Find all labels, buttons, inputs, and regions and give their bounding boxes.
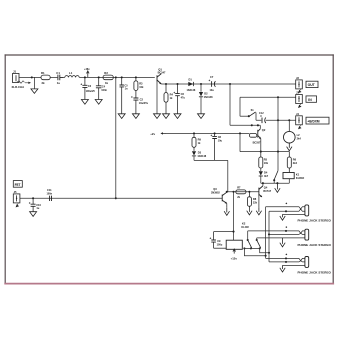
node K2 drive tap — [232, 191, 234, 193]
svg-text:J4: J4 — [296, 112, 299, 116]
wire node to ground stem — [33, 77, 35, 88]
ground (C5) — [118, 114, 125, 119]
node x278 on y120 — [277, 119, 279, 121]
svg-text:+B/DXM: +B/DXM — [307, 119, 319, 123]
wire contact common — [244, 247, 259, 249]
svg-text:R8: R8 — [253, 197, 257, 201]
svg-text:KLCM: KLCM — [241, 226, 248, 229]
svg-text:1k: 1k — [105, 81, 109, 85]
wire jack2 top — [248, 231, 305, 233]
svg-text:10k: 10k — [139, 86, 144, 89]
zigzag shield element — [17, 81, 25, 84]
ground arrow (jack3) — [280, 265, 285, 272]
svg-text:+48v: +48v — [84, 68, 90, 71]
wire L1 to Q1 base — [79, 76, 155, 78]
ground (Q1 emitter) — [154, 114, 161, 119]
svg-text:+2v: +2v — [150, 132, 155, 136]
diode D2 to ground — [199, 84, 203, 114]
node contacts on y125.3 — [251, 124, 253, 126]
ground (C3) — [81, 100, 88, 105]
svg-text:PHONE JACK STEREO: PHONE JACK STEREO — [298, 243, 332, 247]
wire down to relay rail — [239, 133, 241, 151]
capacitor C3 electrolytic — [81, 77, 88, 99]
wire R1 to C1 — [50, 76, 57, 78]
svg-text:C6: C6 — [181, 92, 185, 96]
svg-text:2k: 2k — [42, 81, 46, 85]
ground (C10) — [30, 212, 37, 217]
svg-text:1N4148: 1N4148 — [204, 96, 213, 99]
wire feedback vertical to Q3 collector — [227, 160, 229, 191]
node C10 tap — [32, 197, 34, 199]
node tick jack3 — [286, 254, 288, 256]
wire vertical x230 — [229, 84, 231, 125]
capacitor C9 electrolytic — [210, 232, 227, 249]
node Q3 collector — [226, 191, 228, 193]
node tick jack2 — [286, 226, 288, 228]
arrow into node — [25, 82, 29, 84]
svg-text:Q2: Q2 — [262, 128, 266, 132]
connector J4 — [296, 116, 303, 125]
svg-text:D2: D2 — [204, 92, 208, 96]
svg-text:K2: K2 — [242, 221, 246, 225]
switch lever x278 relay contact — [277, 97, 279, 170]
svg-text:10u/25v: 10u/25v — [139, 102, 149, 105]
ground arrow (R8) — [247, 211, 252, 215]
border frame bottom — [5, 283, 333, 285]
ground arrow (Q4 emitter) — [256, 207, 261, 215]
phone jack 3 — [305, 257, 309, 268]
svg-text:R9: R9 — [198, 137, 202, 141]
boxed label OUT — [306, 81, 318, 87]
wire bias rail — [166, 132, 249, 134]
relay coil K2 — [226, 240, 242, 249]
wire y183.2 — [261, 182, 290, 184]
svg-text:C3: C3 — [88, 84, 92, 88]
ground arrow (Q3 emitter) — [224, 208, 229, 216]
svg-text:BC557: BC557 — [253, 142, 261, 145]
pin arrow J3 — [299, 104, 301, 107]
switch S1 lever — [249, 112, 255, 116]
ground (D2) — [198, 114, 205, 119]
relay contact pole B — [256, 239, 258, 241]
svg-text:XLR-CHA: XLR-CHA — [12, 85, 25, 89]
svg-text:R6: R6 — [293, 158, 297, 162]
phone jack 2 — [305, 229, 309, 240]
wire jack3 mid — [269, 261, 305, 262]
switch S1 contact — [248, 115, 250, 117]
svg-text:R4: R4 — [170, 93, 174, 97]
diode D3 — [192, 151, 196, 160]
transistor Q3 — [222, 192, 227, 208]
diode D1 — [188, 82, 193, 86]
lamp L2 circle — [284, 120, 296, 143]
wire relay rail y151.6 — [240, 151, 289, 153]
node x278 on rail — [277, 151, 279, 153]
svg-text:L1: L1 — [69, 71, 73, 75]
svg-text:1u: 1u — [36, 207, 39, 210]
transistor Q1 — [157, 74, 162, 114]
wire Q1 output rail — [161, 83, 295, 85]
capacitor C5 small — [120, 77, 124, 113]
resistor R7 — [236, 190, 246, 194]
ground arrow (L2) — [287, 143, 292, 151]
svg-text:IN: IN — [308, 98, 312, 102]
wire C1 to L1 — [60, 76, 63, 78]
wire J1 to R1 — [19, 76, 41, 78]
wire K1 bottom — [288, 179, 290, 184]
wire vertical x240 from J3 rail — [239, 97, 241, 116]
node C4 tap — [98, 76, 100, 78]
svg-text:D4: D4 — [264, 171, 268, 175]
resistor R10 base of Q2 — [249, 134, 256, 138]
wire jack3 top — [266, 258, 306, 260]
ground (C6) — [174, 114, 181, 119]
relay contact pole A — [247, 239, 249, 241]
wire riser pole A to jack2 top — [247, 231, 249, 240]
boxed label +B/DXM — [306, 117, 329, 124]
svg-text:22k: 22k — [253, 201, 258, 204]
wire bus V1 — [265, 207, 267, 259]
capacitor C12 electrolytic horizontal — [260, 115, 266, 123]
border frame right — [332, 55, 334, 284]
wire switched rail y=120.3 — [256, 119, 296, 121]
capacitor C7 electrolytic coupling — [209, 80, 216, 87]
node R4 tap — [165, 83, 167, 85]
svg-text:2k: 2k — [237, 196, 240, 199]
svg-text:10k: 10k — [264, 162, 269, 165]
node C3 tap — [84, 76, 86, 78]
boxed label IN — [306, 96, 317, 102]
wire lower input bus y198.3 — [20, 197, 222, 199]
pin arrow J4 — [299, 125, 301, 128]
wire y116.2 — [240, 115, 249, 117]
svg-text:10u: 10u — [210, 89, 215, 92]
capacitor C11 series — [50, 196, 52, 201]
svg-text:1k: 1k — [170, 97, 173, 100]
svg-text:C9: C9 — [217, 239, 221, 243]
svg-text:R1: R1 — [41, 71, 45, 75]
connector J2 — [296, 80, 303, 89]
wire jack2 mid — [269, 233, 305, 234]
node R3 tap — [135, 76, 137, 78]
svg-text:R3: R3 — [139, 81, 143, 85]
switch S1 output stub — [255, 113, 257, 121]
relay coil K1 — [283, 173, 294, 179]
capacitor C4 — [96, 77, 102, 99]
svg-text:OUT: OUT — [308, 83, 316, 87]
capacitor C1 — [58, 75, 60, 81]
wire feedback rail y=97.3 — [240, 96, 296, 98]
svg-text:100u: 100u — [217, 243, 223, 246]
inductor L1 — [60, 76, 79, 78]
ground (R3/C2) — [132, 114, 139, 119]
svg-text:2N3902: 2N3902 — [211, 191, 220, 194]
svg-text:D3: D3 — [198, 151, 202, 155]
border frame top — [5, 54, 333, 56]
svg-text:J2: J2 — [296, 76, 299, 80]
svg-text:J5: J5 — [14, 190, 17, 194]
ground (R4) — [163, 114, 170, 119]
connector J3 — [296, 95, 303, 104]
resistor R6 vertical — [287, 152, 291, 173]
svg-text:C7: C7 — [210, 75, 214, 79]
svg-text:L2: L2 — [297, 133, 301, 137]
wire jack1 top — [266, 207, 306, 209]
resistor R8 vertical — [247, 192, 251, 212]
node D2 tap — [200, 83, 202, 85]
connector J5 — [13, 194, 20, 203]
svg-text:R7: R7 — [237, 186, 241, 190]
capacitor C2 electrolytic — [131, 96, 138, 114]
wire common to bottom rail — [244, 248, 265, 255]
svg-text:K1: K1 — [296, 172, 300, 176]
svg-text:1N4148: 1N4148 — [197, 155, 206, 158]
node C6 tap — [176, 83, 178, 85]
node x289 on y120 — [288, 119, 290, 121]
resistor R1 — [41, 75, 50, 80]
svg-text:1k: 1k — [198, 142, 201, 145]
wire jack3 bottom — [283, 264, 306, 266]
ground arrow (y183 rail) — [275, 183, 280, 192]
svg-text:+12v: +12v — [231, 257, 238, 261]
capacitor C8 electrolytic — [211, 133, 217, 160]
svg-text:4k7: 4k7 — [264, 175, 269, 178]
svg-text:FET: FET — [15, 183, 21, 187]
svg-text:KLR1D: KLR1D — [296, 177, 305, 180]
svg-text:100u/25: 100u/25 — [86, 90, 96, 93]
ground (C4) — [95, 100, 102, 105]
resistor R3 vertical — [134, 77, 138, 97]
svg-text:2k4: 2k4 — [297, 138, 302, 141]
node C5 tap — [121, 76, 123, 78]
resistor R5 vertical — [259, 152, 263, 168]
transistor Q4 — [259, 183, 263, 207]
svg-text:C12: C12 — [259, 112, 264, 115]
node bias to relay rail — [239, 132, 241, 134]
svg-text:BC547: BC547 — [158, 71, 166, 74]
wire K2 loop top — [214, 231, 234, 233]
node on input wire — [31, 76, 33, 78]
svg-text:2k2: 2k2 — [293, 162, 298, 165]
svg-text:100n: 100n — [101, 89, 107, 92]
wire riser pole B to jack2 bottom — [256, 238, 258, 240]
svg-text:C1: C1 — [56, 71, 60, 75]
svg-text:PHONE JACK STEREO: PHONE JACK STEREO — [298, 270, 332, 274]
node on y183.2 — [262, 182, 264, 184]
wire jack2 bottom — [257, 237, 305, 239]
svg-text:1u: 1u — [57, 81, 61, 85]
svg-text:1N4148: 1N4148 — [187, 89, 196, 92]
wire collector rail y191.8 — [227, 191, 259, 193]
phone jack 1 — [305, 205, 309, 216]
svg-text:47u: 47u — [181, 97, 186, 100]
svg-text:R5: R5 — [264, 158, 268, 162]
boxed label FET — [13, 181, 22, 188]
svg-text:C8: C8 — [218, 135, 222, 139]
wire y160.4 — [194, 159, 228, 161]
+48V phantom arrow — [87, 71, 90, 78]
svg-text:PHONE JACK STEREO: PHONE JACK STEREO — [298, 218, 332, 222]
svg-text:R2: R2 — [104, 71, 108, 75]
long vertical wire to lower mix bus — [115, 77, 117, 198]
border frame left — [4, 55, 6, 284]
resistor R9 vertical — [192, 133, 196, 151]
node R9 tap — [193, 132, 195, 134]
svg-text:BC517: BC517 — [263, 190, 271, 193]
+2V arrow label — [160, 132, 166, 134]
ground arrow (jack2) — [280, 238, 285, 247]
transistor Q2 — [258, 125, 261, 151]
svg-text:10u: 10u — [218, 140, 223, 143]
wire jack1 mid — [269, 209, 305, 211]
ground arrow (jack1) — [280, 214, 285, 220]
svg-text:C2: C2 — [140, 97, 144, 101]
svg-text:1n: 1n — [125, 88, 128, 91]
pin arrow J5 — [16, 204, 18, 207]
capacitor C10 electrolytic — [29, 198, 36, 211]
svg-text:D1: D1 — [189, 78, 193, 82]
node feedback tap — [229, 83, 231, 85]
svg-text:Q4: Q4 — [264, 185, 268, 189]
svg-text:S1: S1 — [251, 109, 255, 112]
svg-text:100n: 100n — [47, 192, 53, 195]
node tick jack1 — [286, 203, 288, 205]
node R8 tap — [248, 191, 250, 193]
ground (XLR shield) — [31, 89, 38, 94]
wire jack1 bottom — [283, 213, 306, 215]
node Q2 emitter on rail — [260, 151, 262, 153]
node at x278 top — [277, 96, 279, 98]
diode D4 — [259, 168, 263, 183]
svg-text:Q3: Q3 — [213, 187, 217, 191]
wire K2 drive vertical — [233, 192, 235, 240]
capacitor C6 electrolytic — [174, 84, 180, 114]
+12V arrow — [233, 249, 236, 254]
svg-text:J1: J1 — [13, 70, 17, 74]
node C8 tap — [214, 132, 216, 134]
wire pole B common jog — [260, 248, 269, 252]
svg-text:C10: C10 — [36, 203, 41, 207]
wire bus V2 — [268, 211, 270, 262]
resistor R2 — [103, 75, 113, 80]
wire y125.3 — [230, 124, 260, 126]
contact common nodes — [250, 247, 252, 249]
connector J1 XLR input — [13, 74, 20, 83]
pin arrow J2 — [299, 89, 301, 92]
resistor R4 vertical — [164, 84, 168, 114]
